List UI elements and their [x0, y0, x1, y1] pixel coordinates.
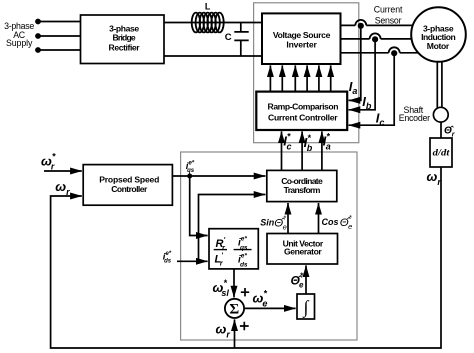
svg-text:L: L	[205, 1, 211, 11]
svg-text:ω*r: ω*r	[41, 152, 56, 172]
svg-text:ie*ds: ie*ds	[163, 251, 172, 265]
svg-text:d/dt: d/dt	[433, 148, 450, 158]
svg-text:Θ̂*e: Θ̂*e	[291, 272, 304, 290]
svg-text:Propsed Speed: Propsed Speed	[99, 174, 159, 184]
svg-text:Current: Current	[374, 4, 403, 14]
svg-text:Controller: Controller	[111, 184, 148, 194]
svg-text:Rectifier: Rectifier	[109, 43, 141, 53]
svg-text:Current Controller: Current Controller	[268, 112, 338, 122]
svg-text:Cos: Cos	[322, 217, 339, 227]
svg-text:R'r: R'r	[216, 237, 227, 252]
svg-text:Encoder: Encoder	[399, 113, 430, 123]
svg-text:ie*qs: ie*qs	[186, 160, 195, 174]
svg-text:Ramp-Comparison: Ramp-Comparison	[268, 101, 339, 111]
svg-text:L'r: L'r	[215, 253, 224, 268]
svg-text:Sensor: Sensor	[375, 15, 402, 25]
svg-text:Motor: Motor	[427, 41, 450, 51]
svg-text:Bridge: Bridge	[113, 33, 136, 43]
svg-text:Transform: Transform	[284, 185, 321, 195]
svg-text:Σ: Σ	[229, 302, 239, 318]
svg-text:Supply: Supply	[6, 38, 33, 48]
svg-text:Generator: Generator	[284, 247, 322, 257]
svg-text:Sin: Sin	[260, 218, 275, 228]
svg-text:Inverter: Inverter	[286, 39, 317, 49]
svg-text:C: C	[225, 32, 232, 43]
